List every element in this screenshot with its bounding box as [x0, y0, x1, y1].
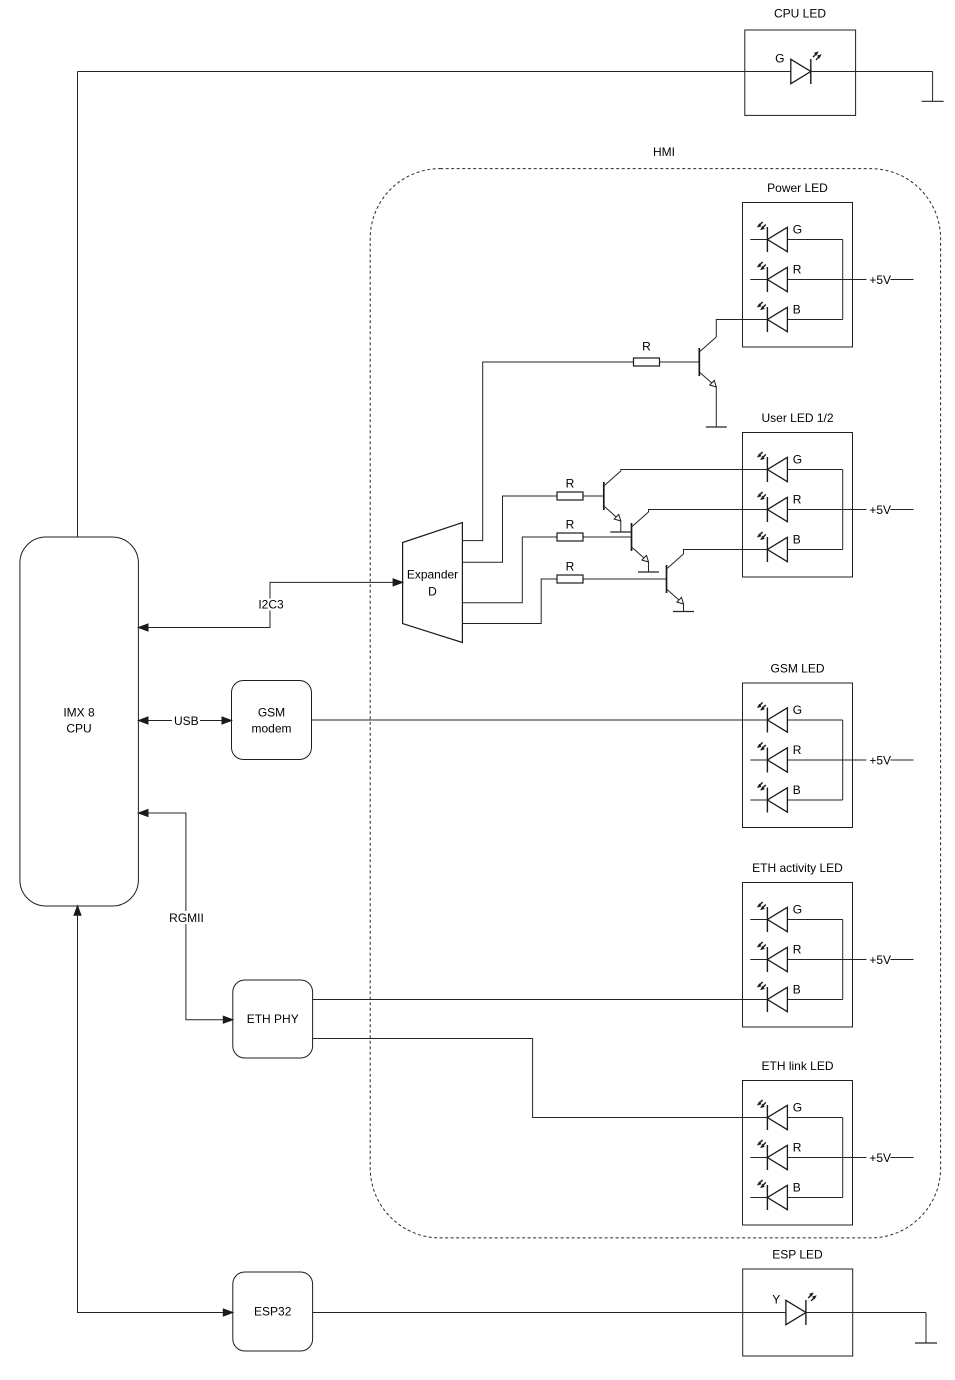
- svg-text:User LED 1/2: User LED 1/2: [761, 411, 833, 425]
- svg-text:+5V: +5V: [869, 753, 891, 767]
- svg-text:ETH PHY: ETH PHY: [247, 1012, 299, 1026]
- svg-text:CPU LED: CPU LED: [774, 7, 826, 21]
- svg-text:IMX 8: IMX 8: [63, 706, 95, 720]
- svg-text:GSM: GSM: [258, 706, 285, 720]
- svg-text:B: B: [793, 533, 801, 547]
- svg-text:USB: USB: [174, 714, 199, 728]
- svg-text:ESP LED: ESP LED: [772, 1248, 823, 1262]
- svg-text:RGMII: RGMII: [169, 911, 204, 925]
- svg-text:R: R: [793, 943, 802, 957]
- svg-text:+5V: +5V: [869, 503, 891, 517]
- svg-text:ETH link LED: ETH link LED: [761, 1059, 833, 1073]
- svg-text:Y: Y: [772, 1293, 780, 1307]
- svg-text:modem: modem: [251, 722, 291, 736]
- svg-text:R: R: [793, 743, 802, 757]
- svg-text:I2C3: I2C3: [258, 598, 284, 612]
- svg-text:R: R: [566, 518, 575, 532]
- svg-text:+5V: +5V: [869, 1151, 891, 1165]
- svg-text:G: G: [793, 453, 802, 467]
- svg-text:G: G: [793, 223, 802, 237]
- svg-text:ETH activity LED: ETH activity LED: [752, 861, 843, 875]
- svg-text:R: R: [566, 560, 575, 574]
- svg-text:G: G: [793, 903, 802, 917]
- svg-text:G: G: [793, 1101, 802, 1115]
- svg-text:+5V: +5V: [869, 953, 891, 967]
- svg-text:B: B: [793, 783, 801, 797]
- svg-text:G: G: [775, 52, 784, 66]
- svg-text:HMI: HMI: [653, 145, 675, 159]
- svg-text:D: D: [428, 584, 437, 598]
- svg-text:Expander: Expander: [407, 567, 458, 581]
- svg-text:CPU: CPU: [66, 722, 91, 736]
- svg-text:+5V: +5V: [869, 273, 891, 287]
- svg-text:Power LED: Power LED: [767, 181, 828, 195]
- svg-text:R: R: [793, 493, 802, 507]
- svg-text:B: B: [793, 303, 801, 317]
- svg-text:R: R: [793, 1141, 802, 1155]
- svg-text:R: R: [566, 477, 575, 491]
- svg-text:GSM LED: GSM LED: [770, 662, 824, 676]
- svg-text:G: G: [793, 703, 802, 717]
- svg-text:B: B: [793, 1181, 801, 1195]
- svg-text:ESP32: ESP32: [254, 1305, 292, 1319]
- svg-text:B: B: [793, 983, 801, 997]
- svg-text:R: R: [642, 340, 651, 354]
- svg-text:R: R: [793, 263, 802, 277]
